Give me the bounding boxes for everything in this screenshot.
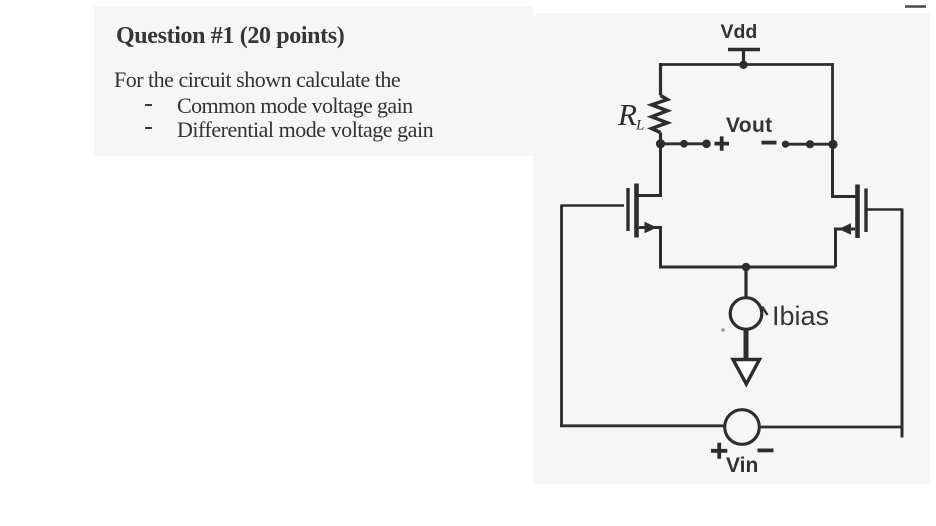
scanned paper region (circuit block)	[533, 13, 930, 484]
svg-text:Ibias: Ibias	[772, 301, 829, 331]
question title	[116, 23, 344, 50]
wire bottom rail right	[760, 426, 904, 429]
scan speck	[721, 328, 725, 332]
scanned paper region (text block)	[94, 6, 533, 156]
resistor RL	[652, 96, 668, 133]
wire common source rail	[659, 266, 836, 269]
transistor M2 (right NMOS)	[833, 144, 867, 267]
current source arrow shaft	[744, 330, 749, 360]
wire right loop (M2 gate to Vin)	[901, 209, 904, 438]
junction dot tail node	[742, 263, 751, 272]
svg-text:Vin: Vin	[726, 454, 758, 477]
Vout label	[726, 114, 773, 137]
wire right branch from rail to Vout- node	[831, 63, 834, 144]
wire bottom rail left	[560, 424, 725, 427]
connection dot at Vout+ lead end	[702, 140, 711, 149]
minus sign Vin	[758, 448, 774, 452]
plus sign Vout	[715, 136, 730, 150]
wire M1 gate lead	[562, 204, 625, 207]
bullet line 2	[177, 117, 433, 143]
wire left loop (M1 gate to Vin)	[560, 205, 563, 427]
voltage source Vin	[725, 410, 760, 445]
connection dot on Vout- lead	[782, 141, 789, 148]
Vdd supply bar	[728, 50, 760, 65]
wire Vout+ lead	[661, 142, 708, 145]
current source arrowhead	[733, 360, 760, 385]
minus sign Vout	[762, 141, 777, 145]
bullet dash 2	[145, 127, 152, 130]
wire Vout- lead	[786, 143, 834, 146]
connection dot on Vout- lead mid	[806, 140, 814, 148]
wire top rail	[660, 63, 833, 66]
current source Ibias	[730, 298, 767, 330]
wire tail node to current source	[744, 267, 747, 298]
wire left branch from rail to resistor	[659, 63, 662, 96]
body line 1	[114, 67, 400, 93]
svg-text:R: R	[617, 97, 637, 132]
transistor M1 (left NMOS)	[628, 144, 661, 267]
bullet line 1	[177, 93, 413, 119]
plus sign Vin	[711, 443, 727, 459]
svg-text:Vdd: Vdd	[721, 21, 758, 43]
Ibias label	[772, 301, 829, 331]
connection dot on Vout+ lead	[680, 140, 688, 148]
wire resistor to Vout+ node	[659, 133, 662, 145]
junction dot Vout- node	[828, 140, 837, 149]
RL value label	[617, 97, 644, 134]
bullet dash 1	[145, 104, 152, 107]
Vdd label	[721, 21, 758, 43]
svg-text:Vout: Vout	[726, 114, 773, 137]
scan artifact top right	[905, 5, 926, 7]
junction dot at Vdd stem	[739, 61, 747, 69]
junction dot Vout+ node	[656, 139, 665, 148]
svg-text:L: L	[635, 118, 644, 134]
Vin label	[726, 454, 758, 477]
wire M2 gate lead	[868, 208, 903, 211]
